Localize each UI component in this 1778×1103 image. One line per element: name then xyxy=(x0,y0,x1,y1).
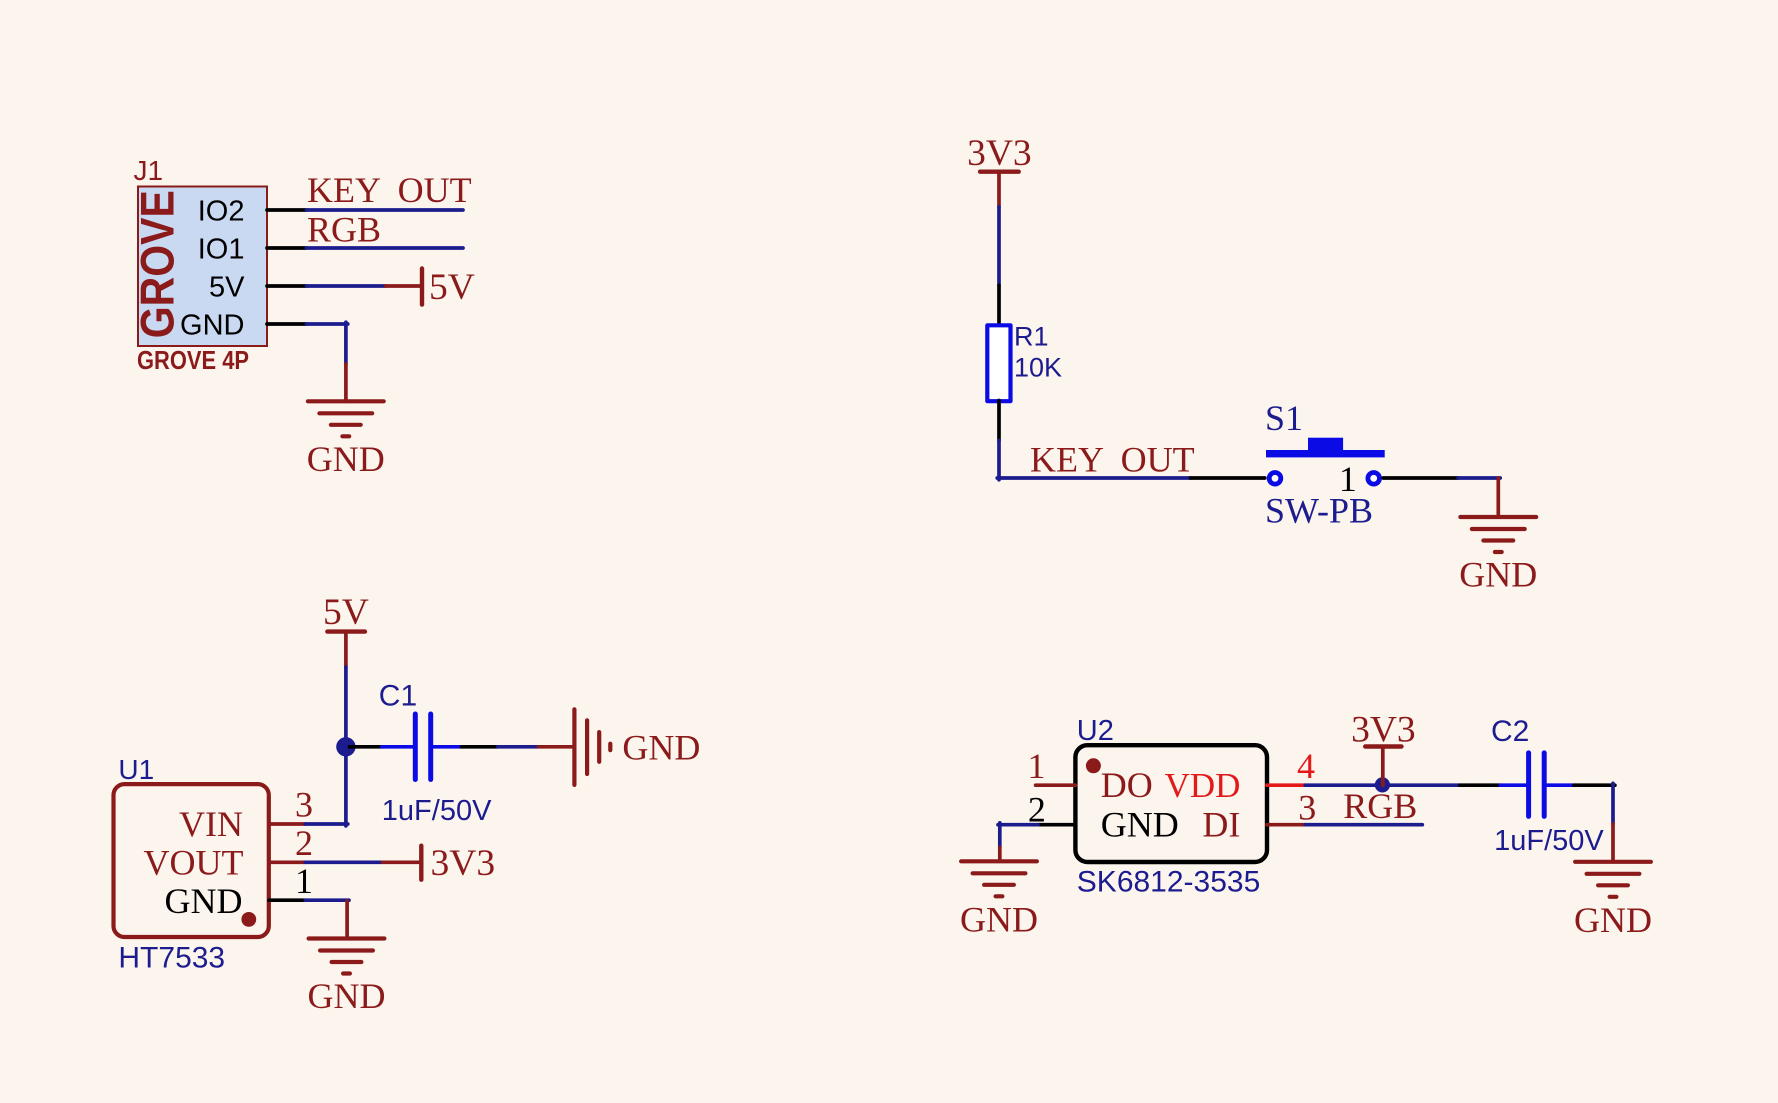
svg-text:GROVE 4P: GROVE 4P xyxy=(137,345,249,375)
ground lead U2 pin2 xyxy=(998,848,1002,862)
wire pin2 to GND (navy horizontal) xyxy=(998,823,1038,827)
wire C2 to GND (navy vertical) xyxy=(1611,783,1615,823)
junction node dot (3V3) xyxy=(1375,777,1390,792)
5V power lead xyxy=(385,284,420,288)
svg-text:VOUT: VOUT xyxy=(144,842,244,882)
svg-text:5V: 5V xyxy=(323,592,369,633)
switch S1 bar xyxy=(1266,450,1385,457)
wire net KEY OUT horizontal xyxy=(997,476,1190,480)
U2 pin 1 stub (DO) xyxy=(1036,783,1076,787)
wire VDD to C2 (navy) xyxy=(1305,783,1460,787)
svg-text:2: 2 xyxy=(1028,790,1046,830)
svg-text:3V3: 3V3 xyxy=(1351,710,1416,751)
svg-text:3V3: 3V3 xyxy=(967,133,1032,174)
svg-text:1uF/50V: 1uF/50V xyxy=(1494,825,1604,857)
svg-text:GND: GND xyxy=(1459,555,1537,595)
junction node dot xyxy=(336,737,355,756)
regulator U1 body xyxy=(114,784,269,937)
ground symbol rotated (C1) xyxy=(574,709,610,785)
pin IO1 stub xyxy=(267,246,307,250)
svg-text:4: 4 xyxy=(1297,746,1315,786)
svg-text:U2: U2 xyxy=(1077,715,1114,747)
pin GND stub xyxy=(267,322,307,326)
ground lead U1 xyxy=(345,901,349,939)
wire pin1 to GND (navy) xyxy=(305,898,349,902)
wire to C2 (black) xyxy=(1460,783,1500,787)
ground symbol U2 pin2 xyxy=(961,861,1037,896)
svg-text:1: 1 xyxy=(295,861,313,901)
wire GND vertical xyxy=(344,322,348,364)
LED driver U2 body xyxy=(1075,745,1267,862)
wire net RGB from DI xyxy=(1305,823,1422,827)
svg-text:HT7533: HT7533 xyxy=(118,942,225,975)
U2 pin1 marker dot xyxy=(1086,758,1101,773)
svg-text:5V: 5V xyxy=(209,271,245,303)
svg-text:1: 1 xyxy=(1028,746,1046,786)
wire C1 to GND (black) xyxy=(462,745,498,749)
wire to 5V power xyxy=(307,284,386,288)
svg-text:SK6812-3535: SK6812-3535 xyxy=(1077,866,1261,899)
U1 pin 1 stub xyxy=(269,898,305,902)
wire C2 to GND (black) xyxy=(1574,783,1615,787)
U1 pin 3 stub xyxy=(269,822,305,826)
ground lead S1 xyxy=(1496,478,1500,517)
switch S1 left contact xyxy=(1269,473,1281,485)
svg-text:IO2: IO2 xyxy=(198,195,245,227)
svg-text:R1: R1 xyxy=(1014,321,1049,351)
svg-text:3: 3 xyxy=(295,785,313,825)
3V3 power lead (U2) xyxy=(1381,749,1385,786)
svg-text:5V: 5V xyxy=(429,267,475,308)
svg-text:U1: U1 xyxy=(118,754,154,785)
wire pin2 to GND (navy vertical) xyxy=(998,823,1002,848)
ground lead xyxy=(344,364,348,401)
capacitor C2 left lead xyxy=(1500,783,1526,787)
wire S1 to GND (black) xyxy=(1383,476,1458,480)
wire pin2 to 3V3 (navy) xyxy=(305,860,382,864)
switch S1 actuator bump xyxy=(1308,438,1343,450)
svg-text:GND: GND xyxy=(308,976,386,1016)
U1 pin 2 stub xyxy=(269,860,305,864)
wire GND horizontal xyxy=(307,322,348,326)
svg-text:IO1: IO1 xyxy=(198,233,245,265)
svg-text:RGB: RGB xyxy=(1343,786,1417,826)
svg-text:DI: DI xyxy=(1202,805,1240,845)
svg-text:GND: GND xyxy=(307,439,385,479)
svg-text:GND: GND xyxy=(1574,900,1652,940)
ground lead C2 xyxy=(1611,824,1615,862)
wire net RGB from IO1 xyxy=(307,246,464,250)
svg-text:S1: S1 xyxy=(1265,398,1303,438)
svg-text:GND: GND xyxy=(622,727,700,767)
svg-text:KEY OUT: KEY OUT xyxy=(1030,439,1195,479)
capacitor C1 left lead xyxy=(382,745,413,749)
svg-text:GROVE: GROVE xyxy=(131,190,184,338)
svg-text:GND: GND xyxy=(1101,805,1179,845)
wire to S1 (black) xyxy=(1191,476,1265,480)
capacitor C1 right lead xyxy=(433,745,462,749)
svg-text:SW-PB: SW-PB xyxy=(1265,491,1373,531)
ground symbol U1 xyxy=(309,939,385,974)
U2 pin 3 stub (DI) xyxy=(1267,823,1305,827)
wire 5V down to junction xyxy=(344,667,348,749)
ground symbol C2 xyxy=(1575,862,1651,897)
wire pin3 to junction (vertical) xyxy=(344,745,348,826)
5V power bar symbol xyxy=(420,269,424,305)
U2 pin 2 stub (GND) xyxy=(1038,823,1076,827)
wire S1 to GND (navy) xyxy=(1458,476,1500,480)
switch S1 right contact xyxy=(1368,473,1380,485)
ground symbol S1 xyxy=(1460,517,1536,552)
3V3 power lead (U1) xyxy=(383,860,420,864)
resistor R1 body xyxy=(987,325,1010,401)
wire junction to C1 (black) xyxy=(346,745,382,749)
wire 3V3 to R1 (black) xyxy=(997,285,1001,325)
svg-text:VIN: VIN xyxy=(179,804,243,844)
svg-text:10K: 10K xyxy=(1014,353,1062,383)
wire C1 to GND (navy) xyxy=(498,745,539,749)
svg-text:GND: GND xyxy=(180,309,244,341)
svg-text:C2: C2 xyxy=(1491,715,1529,748)
connector J1 body xyxy=(138,187,267,347)
svg-text:GND: GND xyxy=(960,900,1038,940)
wire 3V3 to R1 (navy) xyxy=(997,207,1001,285)
svg-text:3V3: 3V3 xyxy=(431,843,496,884)
svg-text:DO: DO xyxy=(1101,765,1153,805)
svg-text:GND: GND xyxy=(165,881,243,921)
3V3 power bar symbol (U2) xyxy=(1365,744,1401,748)
svg-text:VDD: VDD xyxy=(1165,766,1241,805)
svg-text:KEY OUT: KEY OUT xyxy=(307,170,472,210)
ground lead (rotated) xyxy=(538,745,572,749)
svg-text:1uF/50V: 1uF/50V xyxy=(382,795,492,827)
3V3 power lead xyxy=(997,172,1001,207)
pin IO2 stub xyxy=(267,208,307,212)
3V3 power bar symbol (U1) xyxy=(419,846,423,880)
wire net KEY OUT from IO2 xyxy=(307,208,464,212)
capacitor C2 plates xyxy=(1529,753,1545,817)
svg-text:J1: J1 xyxy=(134,155,164,186)
5V power lead xyxy=(344,632,348,668)
wire R1 to corner (black) xyxy=(997,401,1001,441)
capacitor C2 right lead xyxy=(1546,783,1574,787)
U2 pin 4 stub (VDD) xyxy=(1267,783,1305,787)
wire R1 to corner (navy) xyxy=(997,440,1001,480)
capacitor C1 plates xyxy=(415,714,430,780)
svg-text:3: 3 xyxy=(1298,788,1316,828)
5V power bar symbol xyxy=(327,629,365,633)
svg-text:C1: C1 xyxy=(379,680,417,713)
3V3 power bar symbol xyxy=(980,169,1019,173)
svg-text:2: 2 xyxy=(295,823,313,863)
wire pin3 to junction (horizontal) xyxy=(305,822,348,826)
pin 5V stub xyxy=(267,284,307,288)
ground symbol J1 xyxy=(308,401,384,436)
svg-text:RGB: RGB xyxy=(307,210,381,250)
U1 polarity dot xyxy=(241,912,256,927)
